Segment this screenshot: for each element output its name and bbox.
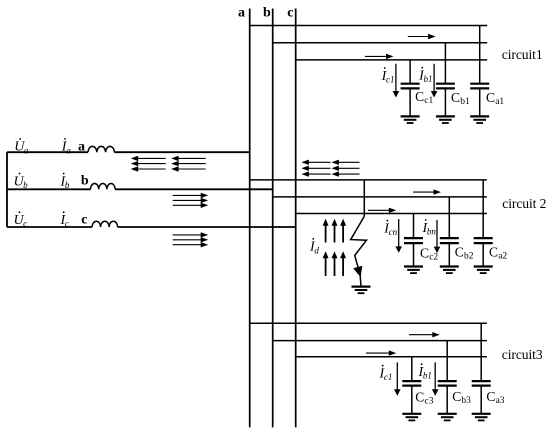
ground of Ca2 <box>474 267 493 274</box>
capacitor Cc3 <box>402 357 421 414</box>
svg-text:a3: a3 <box>496 396 505 406</box>
voltage source Ua label <box>14 138 29 155</box>
wire phase a to bus a <box>114 151 249 153</box>
capacitor Cb3 <box>438 341 457 414</box>
current Ic1 label (circuit1) <box>381 67 395 84</box>
capacitor Ca1 <box>470 26 489 117</box>
svg-text:c1: c1 <box>386 74 395 84</box>
circuit2 current arrow on line c <box>368 208 396 213</box>
current Ic label <box>60 211 69 228</box>
current Ia label <box>61 138 71 155</box>
svg-text:b2: b2 <box>464 252 474 262</box>
inductor Lb <box>91 183 116 189</box>
circuit3 current arrow on line b <box>409 332 440 337</box>
capacitor Cb1 <box>436 43 455 117</box>
capacitor Cc2 <box>404 214 423 267</box>
bus c vertical <box>295 9 297 428</box>
ground of Ca1 <box>470 116 489 123</box>
svg-text:a: a <box>238 6 245 21</box>
fault current arrows above circuit2 line a (set 1, pointing left) <box>301 160 330 177</box>
svg-text:b: b <box>65 180 70 190</box>
capacitor Cc3 value label <box>415 390 433 407</box>
current Ib1 label (circuit1) <box>418 67 432 84</box>
svg-text:b3: b3 <box>461 396 471 406</box>
current arrow Ic1 (circuit3) <box>394 362 401 395</box>
inductor La <box>88 146 114 152</box>
wire left vertical connecting sources <box>6 152 8 227</box>
circuit1 current arrow on line c <box>365 54 394 59</box>
fault current arrows up (group 1) <box>323 219 347 243</box>
wire phase b left <box>7 188 91 190</box>
svg-text:a1: a1 <box>495 97 504 107</box>
svg-text:C: C <box>489 245 498 260</box>
current arrow Ib1 (circuit1) <box>431 64 438 98</box>
capacitor Cc1 value label <box>415 89 433 106</box>
current Ib1 label (circuit3) <box>418 363 432 380</box>
current arrow Icn (circuit2) <box>395 219 402 253</box>
ground of Cc1 <box>401 116 420 123</box>
voltage source Uc label <box>14 211 28 228</box>
phase label c <box>81 212 87 227</box>
svg-text:bn: bn <box>427 226 437 236</box>
ground of Cb2 <box>440 267 459 274</box>
current Icn label (circuit2) <box>383 220 397 237</box>
wire phase b to bus b <box>115 188 273 190</box>
bus label b <box>263 6 271 21</box>
fault current arrows up (group 2) <box>323 251 347 276</box>
circuit1 line phase c <box>296 59 488 61</box>
wire phase a left <box>7 151 88 153</box>
svg-text:b: b <box>81 174 89 189</box>
capacitor Cc2 value label <box>420 246 438 263</box>
current arrows group below phase a (left set 2, pointing left) <box>171 156 206 172</box>
svg-text:c2: c2 <box>429 253 438 263</box>
svg-text:c1: c1 <box>424 96 433 106</box>
capacitor Cb3 value label <box>452 389 471 406</box>
circuit2 line phase c <box>296 213 487 215</box>
current arrows group below phase b (pointing right) <box>173 193 209 208</box>
capacitor Ca3 value label <box>486 389 504 406</box>
wire fault tap from circuit2 line a <box>363 180 365 216</box>
circuit2 line phase b <box>273 196 487 198</box>
svg-text:circuit 2: circuit 2 <box>502 196 546 211</box>
svg-text:C: C <box>486 90 495 105</box>
circuit3 line phase c <box>296 356 487 358</box>
svg-text:C: C <box>415 390 424 405</box>
current arrow Ibn (circuit2) <box>434 220 441 253</box>
circuit1 current arrow on line b <box>408 34 436 39</box>
fault current Id label <box>309 238 319 255</box>
capacitor Ca2 value label <box>489 245 507 262</box>
svg-text:c1: c1 <box>384 372 393 382</box>
circuit2 line phase a <box>250 179 487 181</box>
svg-text:b1: b1 <box>460 97 470 107</box>
circuit3 label <box>502 347 543 362</box>
current Ic1 label (circuit3) <box>379 365 393 382</box>
bus a vertical <box>249 9 251 428</box>
capacitor Ca1 value label <box>486 90 504 107</box>
svg-text:b1: b1 <box>424 74 433 84</box>
current arrows group below phase c (pointing right) <box>173 232 209 247</box>
circuit3 line phase b <box>273 340 487 342</box>
capacitor Ca3 <box>472 323 491 414</box>
circuit3 line phase a <box>250 322 487 324</box>
ground of Cb1 <box>436 116 455 123</box>
current arrow Ib1 (circuit3) <box>432 362 439 395</box>
bus b vertical <box>272 9 274 428</box>
fault current arrows above circuit2 line a (set 2, pointing left) <box>331 160 359 177</box>
fault arc (zigzag) to ground <box>351 216 367 286</box>
circuit2 current arrow on line b <box>413 189 441 194</box>
svg-text:C: C <box>451 90 460 105</box>
svg-text:c3: c3 <box>425 397 434 407</box>
wire phase c left <box>7 226 92 228</box>
svg-text:C: C <box>452 389 461 404</box>
svg-text:a: a <box>24 145 29 155</box>
ground of fault <box>352 287 371 294</box>
capacitor Cb2 <box>440 197 459 267</box>
capacitor Cc1 <box>401 60 420 117</box>
current arrows group below phase a (left set 1, pointing left) <box>131 156 166 172</box>
svg-text:circuit3: circuit3 <box>502 347 543 362</box>
current Ib label <box>60 173 70 190</box>
svg-text:a2: a2 <box>498 252 507 262</box>
capacitor Ca2 <box>474 180 493 267</box>
circuit1 line phase a <box>250 25 488 27</box>
svg-text:b: b <box>23 180 28 190</box>
svg-text:C: C <box>420 246 429 261</box>
ground of Cb3 <box>438 414 457 421</box>
ground of Cc3 <box>402 414 421 421</box>
ground of Ca3 <box>472 414 491 421</box>
circuit1 label <box>502 47 543 62</box>
svg-text:a: a <box>66 145 71 155</box>
svg-text:b1: b1 <box>423 371 432 381</box>
circuit3 current arrow on line c <box>366 350 396 355</box>
svg-text:C: C <box>455 245 464 260</box>
current arrow Ic1 (circuit1) <box>393 64 400 98</box>
svg-text:c: c <box>81 212 87 227</box>
bus label a <box>238 6 245 21</box>
ground of Cc2 <box>404 267 423 274</box>
voltage source Ub label <box>14 173 29 190</box>
current Ibn label (circuit2) <box>422 219 437 236</box>
svg-text:circuit1: circuit1 <box>502 47 543 62</box>
inductor Lc <box>92 221 118 227</box>
phase label b <box>81 174 89 189</box>
svg-text:d: d <box>314 245 319 255</box>
svg-text:C: C <box>415 89 424 104</box>
capacitor Cb1 value label <box>451 90 470 107</box>
wire phase c to bus c <box>118 226 296 228</box>
bus label c <box>287 6 293 21</box>
svg-text:cn: cn <box>389 227 398 237</box>
capacitor Cb2 value label <box>455 245 474 262</box>
svg-text:b: b <box>263 6 271 21</box>
svg-text:C: C <box>486 389 495 404</box>
circuit 2 label <box>502 196 546 211</box>
phase label a <box>78 140 85 155</box>
svg-text:c: c <box>287 6 293 21</box>
circuit1 line phase b <box>273 42 488 44</box>
